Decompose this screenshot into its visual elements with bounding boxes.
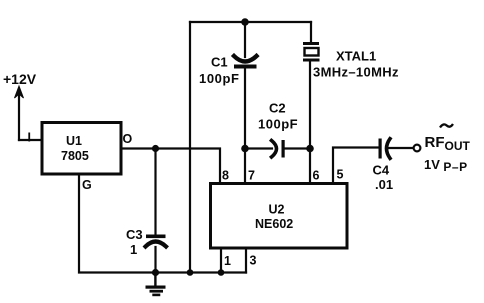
svg-text:+12V: +12V xyxy=(3,71,37,87)
wire crystal upper xyxy=(310,22,312,43)
output terminal circle xyxy=(414,145,421,152)
label AC tilde xyxy=(440,124,453,128)
wire pin5 to C4 xyxy=(333,148,379,184)
wire pin7 xyxy=(244,149,246,184)
svg-text:C4: C4 xyxy=(373,163,390,178)
wire pin6 xyxy=(309,149,311,184)
wire C1 lower to pin7 node xyxy=(244,69,246,149)
wire top rail xyxy=(190,21,311,23)
svg-text:3: 3 xyxy=(250,254,257,268)
capacitor C4 xyxy=(379,139,391,159)
wire C2 right xyxy=(285,147,311,149)
svg-text:XTAL1: XTAL1 xyxy=(336,49,376,64)
svg-text:1: 1 xyxy=(130,242,137,257)
capacitor C3 xyxy=(146,235,167,247)
+12V arrow xyxy=(15,86,24,140)
node junction dot long vertical xyxy=(187,269,194,276)
svg-text:1VP–P: 1VP–P xyxy=(424,157,468,174)
wire long vertical left branch xyxy=(189,22,191,273)
svg-text:RFOUT: RFOUT xyxy=(425,134,471,153)
svg-text:3MHz–10MHz: 3MHz–10MHz xyxy=(313,65,399,80)
voltage regulator U1 box xyxy=(42,123,121,175)
wire C3 branch upper xyxy=(154,149,156,236)
svg-text:G: G xyxy=(82,178,92,192)
wire C4 to output terminal xyxy=(389,147,414,149)
wire U1 ground to bottom rail xyxy=(79,174,246,273)
svg-text:100pF: 100pF xyxy=(199,71,240,86)
wire U1 output rail xyxy=(121,149,220,184)
svg-text:100pF: 100pF xyxy=(258,117,298,132)
svg-text:C2: C2 xyxy=(269,101,286,116)
svg-text:7805: 7805 xyxy=(61,149,89,163)
svg-text:U2: U2 xyxy=(269,203,285,217)
node junction dot C2 right xyxy=(306,145,314,153)
svg-text:U1: U1 xyxy=(66,134,82,148)
wire crystal lower to pin6 node xyxy=(309,62,311,149)
svg-text:.01: .01 xyxy=(375,177,393,192)
svg-text:7: 7 xyxy=(248,169,255,183)
node junction dot pin1 xyxy=(218,269,225,276)
svg-text:C1: C1 xyxy=(211,55,228,70)
svg-text:5: 5 xyxy=(337,168,344,182)
wire C3 branch lower xyxy=(154,247,156,273)
svg-text:I: I xyxy=(28,131,31,145)
node junction dot ground xyxy=(152,269,159,276)
svg-text:6: 6 xyxy=(313,169,320,183)
capacitor C1 xyxy=(234,56,257,69)
crystal XTAL1 xyxy=(303,42,320,62)
svg-text:C3: C3 xyxy=(126,227,143,242)
wire pin1 xyxy=(220,248,222,273)
wire pin3 xyxy=(245,248,247,273)
node junction dot C3 top xyxy=(152,145,159,152)
svg-text:NE602: NE602 xyxy=(255,217,293,231)
svg-text:8: 8 xyxy=(222,169,229,183)
node junction dot top rail xyxy=(241,18,249,26)
wire +12V to U1 input xyxy=(19,139,41,141)
ground xyxy=(146,273,166,297)
svg-text:1: 1 xyxy=(224,254,231,268)
svg-text:O: O xyxy=(123,132,133,146)
IC U2 box xyxy=(211,184,348,249)
node junction dot C2 left xyxy=(241,145,249,153)
wire C1 upper xyxy=(244,22,246,57)
wire C2 left xyxy=(245,147,272,149)
capacitor C2 xyxy=(272,140,285,158)
